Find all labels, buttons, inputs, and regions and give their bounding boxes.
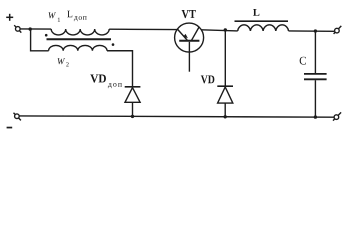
inductor winding W1 <box>51 29 109 35</box>
terminal input minus <box>14 113 21 121</box>
node VDdop bottom junction <box>131 115 134 118</box>
inductor L <box>238 25 289 31</box>
label VT <box>182 10 196 18</box>
label L <box>253 9 259 16</box>
label minus <box>7 127 13 129</box>
wire VT collector to L <box>201 30 237 31</box>
dot W1 polarity <box>45 34 48 37</box>
wire top rail from terminal to W1 <box>20 28 51 30</box>
terminal output minus <box>333 112 341 120</box>
label C <box>300 57 306 65</box>
inductor winding W2 <box>49 45 107 50</box>
node C bottom junction <box>314 115 317 118</box>
terminal output plus <box>334 26 342 34</box>
wire bottom rail <box>19 116 334 117</box>
core of inductor L <box>235 20 289 22</box>
node VD top junction <box>224 28 227 31</box>
dot W2 polarity <box>112 43 115 46</box>
label W2 <box>58 58 65 64</box>
terminal input plus <box>14 25 21 32</box>
label W1 <box>48 12 56 18</box>
wire W2 to VDdop <box>107 51 133 86</box>
label plus <box>6 14 13 21</box>
node input junction <box>29 27 32 30</box>
wire W1 to VT <box>109 28 177 30</box>
wire L to output terminal <box>289 30 335 32</box>
label Ldop <box>67 11 72 17</box>
transistor VT <box>175 23 204 72</box>
wire input drop to W2 <box>31 29 49 51</box>
label VD <box>201 75 215 83</box>
diode VD <box>217 30 233 117</box>
node C top junction <box>314 29 317 32</box>
diode VDdop <box>125 87 141 117</box>
node VD bottom junction <box>224 115 227 118</box>
capacitor C <box>304 31 327 117</box>
label VDdop <box>90 75 106 83</box>
core of coupled inductor Ldop <box>47 38 112 40</box>
